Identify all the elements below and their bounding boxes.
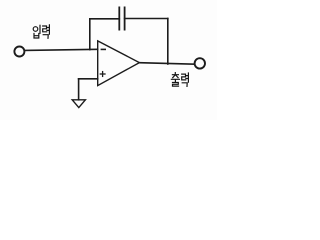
입 : ㅣ [39, 25, 41, 33]
output terminal (circle) [195, 58, 205, 68]
wire: feedback top right [125, 18, 168, 20]
op-amp inverting input label (-) [101, 48, 105, 50]
input terminal (circle) [14, 47, 24, 57]
wire: feedback top left [90, 18, 120, 20]
wire: down to ground [78, 79, 80, 100]
출 : ㅜ [171, 79, 179, 82]
력 : ㄹ [182, 74, 186, 80]
력 : ㄱ [43, 35, 48, 39]
출 : ㄹ [173, 83, 179, 87]
label: 출력 (output) drawn as strokes [171, 73, 188, 87]
wire: non-inverting input [79, 78, 98, 80]
op-amp U1 (triangle) [98, 41, 140, 86]
label: 입력 (input) drawn as strokes [33, 25, 49, 38]
wire: feedback left vertical [89, 19, 91, 50]
입 : ㅇ [33, 27, 38, 32]
op-amp non-inverting input label (+) [100, 72, 105, 77]
력 : ㄱ [182, 83, 187, 87]
wire: input to inverting input [24, 49, 97, 50]
력 : ㅕ [47, 25, 50, 34]
ground symbol [72, 100, 85, 108]
wire: output [139, 63, 194, 64]
wire: feedback right vertical [167, 19, 169, 65]
capacitor C (feedback) [119, 7, 124, 29]
력 : ㅕ [186, 73, 189, 82]
력 : ㄹ [43, 26, 47, 32]
입 : ㅂ [34, 34, 39, 39]
출 : ㅊ [172, 73, 178, 78]
